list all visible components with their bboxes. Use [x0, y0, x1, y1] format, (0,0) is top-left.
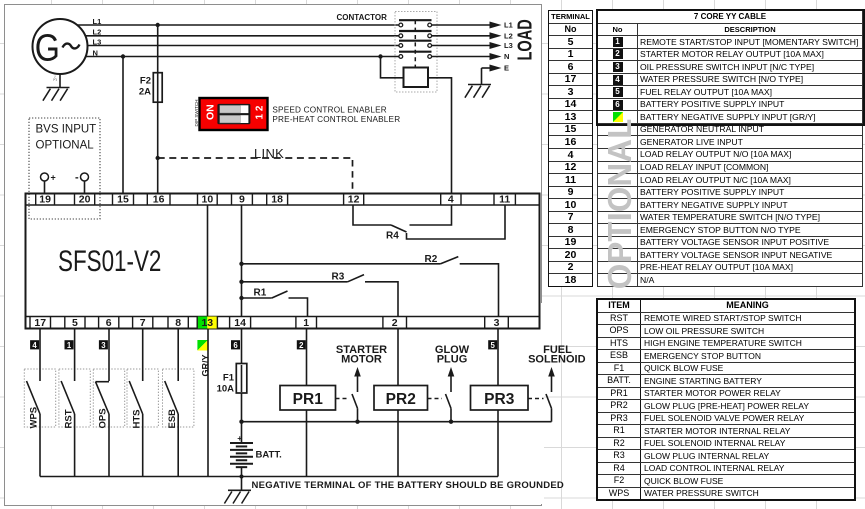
svg-text:7: 7 [140, 317, 146, 329]
svg-text:3: 3 [494, 317, 500, 329]
svg-text:PRE-HEAT CONTROL ENABLER: PRE-HEAT CONTROL ENABLER [272, 115, 400, 124]
svg-text:RST: RST [63, 409, 74, 428]
svg-text:8: 8 [175, 317, 181, 329]
svg-text:12: 12 [348, 193, 360, 205]
svg-text:ESB: ESB [167, 409, 178, 429]
svg-text:4: 4 [32, 341, 37, 350]
svg-text:2A: 2A [139, 87, 151, 98]
svg-text:2: 2 [299, 341, 304, 350]
svg-text:N: N [504, 52, 509, 61]
svg-text:DIP SWITCH: DIP SWITCH [194, 100, 199, 127]
svg-text:1: 1 [303, 317, 309, 329]
svg-text:6: 6 [106, 317, 112, 329]
svg-text:10A: 10A [217, 383, 235, 394]
svg-text:R4: R4 [386, 231, 399, 242]
svg-text:20: 20 [79, 193, 91, 205]
svg-text:1: 1 [67, 341, 72, 350]
svg-text:BVS INPUT: BVS INPUT [36, 124, 97, 136]
svg-text:PR3: PR3 [484, 391, 515, 408]
svg-text:SOLENOID: SOLENOID [528, 354, 586, 366]
svg-text:3~: 3~ [53, 75, 59, 81]
svg-text:R2: R2 [425, 254, 438, 265]
svg-text:SPEED CONTROL ENABLER: SPEED CONTROL ENABLER [272, 105, 386, 114]
svg-text:ON: ON [205, 104, 217, 120]
svg-text:F2: F2 [140, 76, 151, 87]
svg-text:N: N [93, 48, 98, 57]
svg-text:PR1: PR1 [293, 391, 324, 408]
svg-text:L3: L3 [93, 37, 102, 46]
svg-text:SFS01-V2: SFS01-V2 [58, 244, 161, 278]
svg-text:E: E [504, 64, 509, 73]
svg-text:OPTIONAL: OPTIONAL [36, 140, 95, 152]
svg-text:LOAD: LOAD [513, 19, 536, 60]
svg-text:CONTACTOR: CONTACTOR [337, 13, 388, 22]
svg-text:-: - [75, 172, 79, 184]
svg-text:L2: L2 [93, 28, 102, 37]
svg-text:9: 9 [239, 193, 245, 205]
svg-text:R1: R1 [254, 288, 267, 299]
svg-text:16: 16 [153, 193, 165, 205]
svg-text:L1: L1 [504, 21, 513, 30]
svg-text:LINK: LINK [254, 146, 284, 161]
svg-text:BATT.: BATT. [256, 450, 282, 461]
svg-text:10: 10 [202, 193, 214, 205]
svg-text:MOTOR: MOTOR [341, 354, 382, 366]
svg-text:15: 15 [117, 193, 129, 205]
svg-text:L2: L2 [504, 31, 513, 40]
svg-text:6: 6 [233, 341, 238, 350]
svg-text:11: 11 [499, 193, 510, 205]
svg-text:L3: L3 [504, 41, 513, 50]
svg-text:5: 5 [491, 341, 496, 350]
svg-text:NEGATIVE TERMINAL OF THE BATTE: NEGATIVE TERMINAL OF THE BATTERY SHOULD … [252, 480, 565, 491]
svg-text:5: 5 [72, 317, 78, 329]
svg-text:G: G [35, 27, 60, 69]
svg-text:HTS: HTS [131, 410, 142, 429]
svg-text:17: 17 [34, 317, 46, 329]
svg-text:OPS: OPS [98, 408, 109, 428]
svg-text:3: 3 [101, 341, 106, 350]
svg-text:18: 18 [271, 193, 283, 205]
svg-text:14: 14 [234, 317, 246, 329]
svg-text:13: 13 [201, 317, 213, 329]
svg-text:PLUG: PLUG [437, 354, 468, 366]
svg-text:2: 2 [392, 317, 398, 329]
svg-text:F1: F1 [223, 373, 235, 384]
svg-text:L1: L1 [93, 17, 102, 26]
svg-text:4: 4 [448, 193, 454, 205]
svg-text:R3: R3 [332, 272, 345, 283]
svg-text:WPS: WPS [29, 407, 40, 429]
svg-text:1 2: 1 2 [254, 105, 265, 119]
svg-text:19: 19 [39, 193, 51, 205]
svg-text:PR2: PR2 [386, 391, 416, 408]
svg-text:+: + [51, 173, 56, 183]
